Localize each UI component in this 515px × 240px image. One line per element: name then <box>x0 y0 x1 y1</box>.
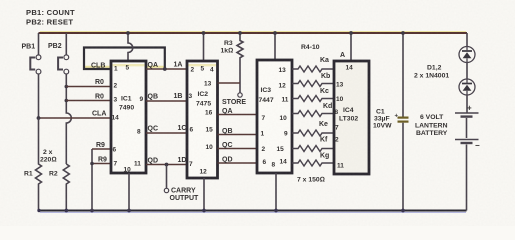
wire R9 row 1 to IC1 pin 6 <box>92 148 111 150</box>
resistor R10 segment g <box>292 160 334 166</box>
diode D1 <box>459 47 475 63</box>
node rail/R3 junction <box>238 31 242 35</box>
node R9 ground junction <box>90 209 94 213</box>
wire rail corner to D1 <box>466 33 468 47</box>
wire R0 row 1 to IC1 pin 2 <box>66 86 111 88</box>
IC1 7490 <box>111 61 146 174</box>
wire IC4 pin14 to rail <box>350 33 352 61</box>
resistor R7 segment d <box>292 111 334 117</box>
wire IC1 pin5 to top rail with hop <box>128 33 133 61</box>
wire row QD out IC2 to IC3 <box>218 162 258 164</box>
wire R9 row 2 to IC1 pin 7 <box>92 163 111 165</box>
node C1 ground junction <box>401 209 405 213</box>
wire PB2 to reset rows with hop over CLA <box>66 74 71 164</box>
resistor R3 <box>221 33 244 93</box>
terminal carry output <box>164 188 168 192</box>
wire row QC out IC2 to IC3 <box>218 148 258 150</box>
node PB2/R0 row2 junction <box>65 99 69 103</box>
wire IC3 top to rail <box>274 33 276 60</box>
resistor R1 <box>24 118 42 211</box>
diode D2 <box>459 79 475 95</box>
wire carry output drop <box>166 165 168 189</box>
resistor R8 segment e <box>292 130 334 136</box>
node R2 ground junction <box>64 209 68 213</box>
wire row QC IC1 to IC2 <box>146 132 187 134</box>
node R1 ground junction <box>37 209 40 212</box>
highlight CLB row <box>84 66 110 68</box>
wire IC1 pin10 to ground <box>128 173 130 211</box>
wire D1 to D2 <box>466 63 468 80</box>
IC3 7447 <box>257 60 292 173</box>
node rail/C1 junction <box>401 31 405 35</box>
wire CLA row PB1 to IC1 pin 14 <box>39 117 112 119</box>
wire IC2 pin12 to ground <box>203 178 205 211</box>
wire top supply rail <box>40 31 466 33</box>
node rail/IC2 pin5 junction <box>202 31 206 35</box>
resistor R2 <box>49 164 69 211</box>
pushbutton PB1 <box>22 33 41 118</box>
wire store row IC2 pin13 to R3 <box>218 82 241 84</box>
node rail/IC4 junction <box>349 31 353 35</box>
node carry junction on QD row <box>165 163 169 167</box>
resistor R9b segment f <box>292 146 334 152</box>
wire R0 row 2 to IC1 pin 3 <box>66 100 111 102</box>
node IC1 pin10 ground junction <box>127 209 131 213</box>
node R9 junction <box>90 162 94 166</box>
resistor R5 segment b <box>292 81 334 87</box>
wire QA feedback loop <box>84 48 165 70</box>
battery B1 <box>455 104 480 211</box>
wire R9 rows vertical to ground <box>91 149 93 211</box>
capacitor C1 <box>373 33 409 211</box>
wire row QD IC1 to IC2 <box>146 164 187 166</box>
wire IC3 pin8 to ground <box>275 173 277 211</box>
IC4 LT302 display <box>334 61 369 174</box>
pushbutton PB2 <box>48 33 69 74</box>
node rail/pin5 junction <box>126 31 130 35</box>
wire row QA out IC2 to IC3 <box>218 114 258 116</box>
resistor R6 segment c <box>292 96 334 102</box>
wire D2 to battery <box>466 95 468 113</box>
wire row QA IC1 to IC2 <box>146 68 187 70</box>
node QA feedback junction <box>163 67 167 71</box>
terminal STORE <box>238 93 242 97</box>
wire IC2 pin5 to top rail <box>203 33 205 61</box>
wire row QB out IC2 to IC3 <box>218 134 258 136</box>
node PB1/CLA junction <box>37 116 41 120</box>
node IC2 pin12 ground junction <box>202 209 206 213</box>
node PB2/R0 row1 junction <box>65 85 69 89</box>
resistor R4 segment a <box>292 66 334 72</box>
node rail/IC3 junction <box>273 31 277 35</box>
node IC3 ground junction <box>274 209 278 213</box>
IC2 7475 <box>187 61 218 178</box>
wire row QB IC1 to IC2 <box>146 100 187 102</box>
wire bottom ground rail <box>39 210 467 212</box>
